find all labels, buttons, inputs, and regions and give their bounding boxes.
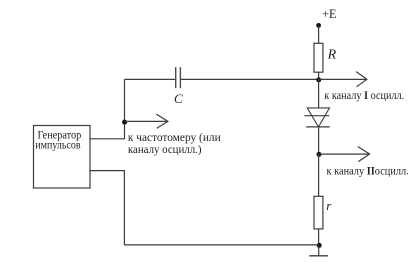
- wire: r to node D: [318, 229, 320, 245]
- arrow to frequency meter: [125, 114, 168, 128]
- svg-text:к каналу IIосцилл.: к каналу IIосцилл.: [327, 164, 409, 178]
- wire: diode to node C: [318, 127, 320, 154]
- label: к частотомеру (или каналу осцилл.): [128, 130, 221, 156]
- capacitor C plates: [176, 67, 181, 88]
- svg-text:импульсов: импульсов: [35, 138, 81, 151]
- wire: +E terminal to resistor R: [318, 25, 320, 43]
- arrow to channel I oscilloscope: [319, 72, 367, 87]
- wire: vertical drop to bottom rail: [123, 171, 125, 245]
- ground: [309, 245, 328, 256]
- wire: top rail left of C: [125, 78, 176, 80]
- wire: R to node B: [318, 72, 320, 79]
- wire: bottom return rail: [124, 244, 318, 246]
- svg-text:каналу осцилл.): каналу осцилл.): [128, 142, 202, 156]
- node D junction dot: [317, 243, 322, 248]
- resistor r: [314, 196, 323, 229]
- pulse generator box G1: [34, 126, 91, 189]
- svg-text:+Е: +Е: [322, 7, 336, 21]
- wire: node C to resistor r: [318, 154, 320, 196]
- node C junction dot: [317, 152, 322, 157]
- +E supply terminal dot: [316, 23, 321, 28]
- arrow to channel II oscilloscope: [319, 147, 370, 162]
- svg-text:к каналу I осцилл.: к каналу I осцилл.: [324, 88, 404, 102]
- svg-text:C: C: [174, 91, 183, 106]
- wire: generator bottom output: [90, 170, 125, 172]
- wire: generator top output: [90, 138, 125, 140]
- wire: node B to diode: [318, 79, 320, 108]
- tunnel diode VD1: [304, 108, 329, 127]
- wire: vertical riser to capacitor rail: [124, 79, 126, 138]
- wire: top rail right of C: [181, 78, 319, 80]
- svg-text:R: R: [327, 47, 337, 62]
- svg-text:r: r: [326, 198, 332, 213]
- resistor R: [314, 43, 323, 72]
- node A junction dot: [122, 120, 127, 125]
- node B junction dot: [316, 77, 321, 82]
